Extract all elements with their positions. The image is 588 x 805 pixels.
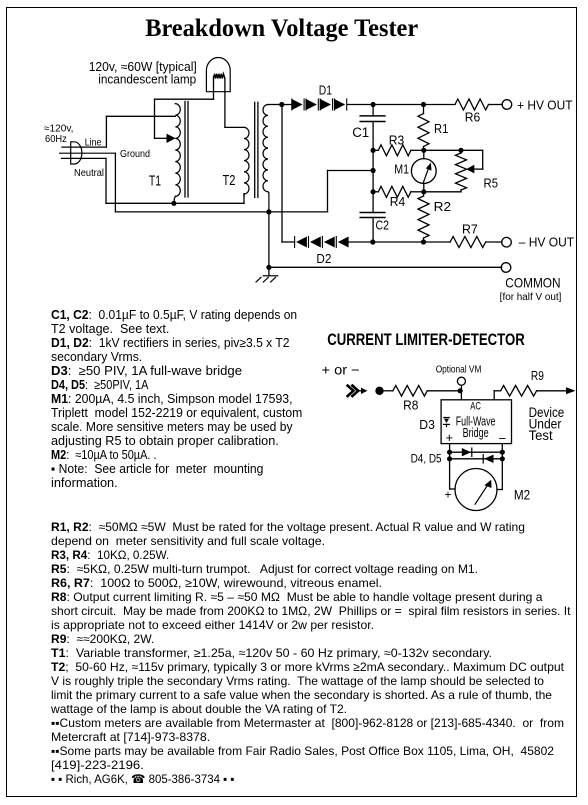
svg-text:T2: T2 (223, 172, 236, 189)
svg-text:R7: R7 (462, 222, 478, 237)
svg-text:Ground: Ground (120, 149, 150, 160)
svg-text:Optional VM: Optional VM (436, 364, 482, 376)
svg-text:R5: R5 (484, 175, 499, 190)
svg-text:AC: AC (470, 400, 481, 412)
svg-text:M1: M1 (394, 162, 409, 177)
svg-text:incandescent lamp: incandescent lamp (98, 72, 196, 86)
svg-text:D1: D1 (319, 83, 332, 98)
svg-text:R4: R4 (390, 194, 405, 209)
svg-text:Bridge: Bridge (463, 426, 489, 440)
svg-text:Test: Test (529, 428, 553, 443)
svg-text:Line: Line (85, 138, 102, 149)
svg-text:D2: D2 (316, 251, 331, 266)
svg-text:– HV OUT: – HV OUT (519, 235, 574, 250)
svg-text:D4, D5: D4, D5 (411, 453, 442, 465)
svg-text:+ or −: + or − (322, 363, 360, 378)
svg-text:C1: C1 (352, 125, 369, 140)
svg-text:R6: R6 (465, 110, 481, 125)
svg-text:Breakdown Voltage Tester: Breakdown Voltage Tester (145, 13, 418, 42)
svg-text:R8: R8 (403, 398, 418, 413)
svg-text:R2: R2 (434, 199, 451, 214)
svg-text:D3: D3 (419, 418, 435, 432)
svg-text:+: + (446, 430, 454, 445)
svg-text:COMMON: COMMON (505, 276, 560, 291)
svg-text:R1: R1 (434, 121, 448, 136)
svg-text:[for half V out]: [for half V out] (500, 292, 562, 303)
svg-text:Neutral: Neutral (74, 168, 104, 179)
svg-text:R9: R9 (531, 368, 544, 383)
svg-text:+ HV OUT: + HV OUT (517, 98, 572, 113)
svg-text:CURRENT LIMITER-DETECTOR: CURRENT LIMITER-DETECTOR (327, 330, 525, 349)
svg-text:M2: M2 (514, 487, 530, 503)
svg-text:R3: R3 (389, 133, 405, 148)
svg-text:+: + (445, 488, 452, 502)
svg-text:T1: T1 (149, 172, 161, 189)
svg-text:≈120v,: ≈120v, (44, 124, 74, 135)
svg-text:60Hz: 60Hz (45, 134, 67, 145)
svg-text:C2: C2 (376, 218, 390, 233)
